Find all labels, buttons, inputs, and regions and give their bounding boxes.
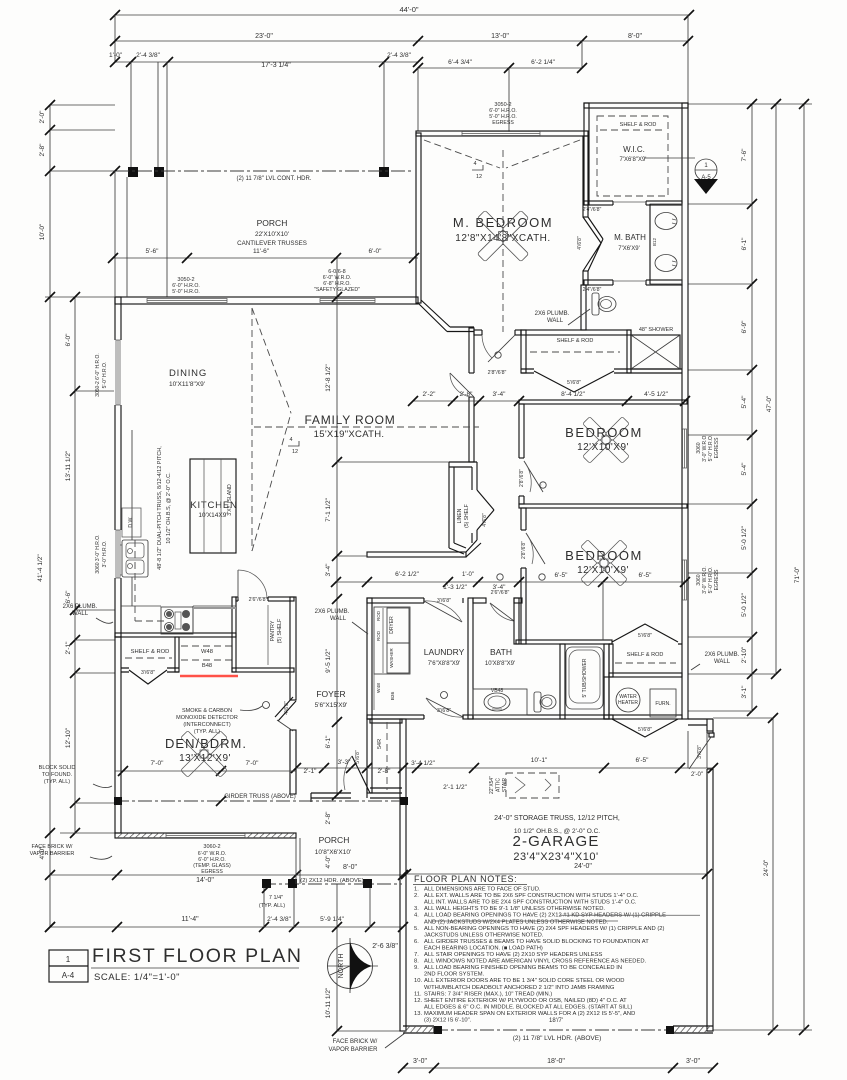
svg-text:PORCH: PORCH <box>257 218 288 228</box>
mbr ceiling dashes <box>424 140 500 168</box>
bedroom1 top wall y400 <box>519 400 687 404</box>
svg-text:24'-0": 24'-0" <box>574 863 592 870</box>
dim line3 right: mbr windows <box>418 67 582 69</box>
svg-text:3'/6'8": 3'/6'8" <box>437 708 451 714</box>
svg-text:2'4"/6'8": 2'4"/6'8" <box>583 287 602 293</box>
svg-text:3'X7' ISLAND: 3'X7' ISLAND <box>227 484 233 516</box>
svg-text:44'-0": 44'-0" <box>399 5 418 14</box>
svg-text:7'-6": 7'-6" <box>741 148 748 162</box>
svg-text:2'-0": 2'-0" <box>691 772 703 778</box>
svg-text:6'-6": 6'-6" <box>65 590 72 604</box>
svg-text:2'-1": 2'-1" <box>65 641 72 655</box>
svg-text:2X6 PLUMB.: 2X6 PLUMB. <box>535 311 570 317</box>
svg-text:STAIR: STAIR <box>502 777 508 792</box>
front wall dining-family <box>115 297 418 304</box>
svg-text:2'-8": 2'-8" <box>39 143 46 157</box>
porch header dashdot y884 <box>262 883 402 885</box>
hall dim y401 <box>413 400 519 402</box>
svg-text:(TYP. ALL): (TYP. ALL) <box>194 729 220 735</box>
svg-text:FLOOR PLAN NOTES:: FLOOR PLAN NOTES: <box>414 874 517 884</box>
svg-text:2'-4 3/8": 2'-4 3/8" <box>136 52 160 59</box>
svg-text:LINEN: LINEN <box>457 508 463 523</box>
svg-text:4: 4 <box>289 437 292 443</box>
kitchen closet bottom walls + chevron door 3/6-8 <box>121 668 179 672</box>
den label + fan <box>181 731 228 778</box>
svg-text:3'/6'8": 3'/6'8" <box>437 598 451 604</box>
wic bottom wall <box>584 201 682 205</box>
svg-text:3'/6'8": 3'/6'8" <box>697 745 703 759</box>
svg-text:3'-4 1/2": 3'-4 1/2" <box>411 760 435 767</box>
svg-text:13.: 13. <box>414 1011 422 1017</box>
svg-text:2'6"/6'8": 2'6"/6'8" <box>249 597 268 603</box>
svg-text:JACKSTUDS UNLESS OTHERWISE NOT: JACKSTUDS UNLESS OTHERWISE NOTED. <box>424 932 544 938</box>
svg-text:MAXIMUM HEADER SPAN ON EXTERIO: MAXIMUM HEADER SPAN ON EXTERIOR WALLS FO… <box>424 1011 635 1017</box>
svg-text:ALL GIRDER TRUSSES & BEAMS TO: ALL GIRDER TRUSSES & BEAMS TO HAVE SOLID… <box>424 939 649 945</box>
svg-text:10'-0": 10'-0" <box>39 223 46 240</box>
svg-text:5'-4": 5'-4" <box>741 462 748 476</box>
garage side door 3/6-8 <box>689 733 714 769</box>
svg-text:23'-0": 23'-0" <box>255 33 273 40</box>
svg-text:(3) 2X12 IS 6'-10".: (3) 2X12 IS 6'-10". <box>424 1018 472 1024</box>
svg-text:WASHER: WASHER <box>389 647 394 667</box>
vertical ext x582 <box>581 41 583 68</box>
svg-text:(TYP. ALL): (TYP. ALL) <box>259 903 285 909</box>
svg-text:ATTIC: ATTIC <box>496 778 502 792</box>
svg-text:1: 1 <box>66 955 71 964</box>
svg-text:3.: 3. <box>414 906 419 912</box>
svg-text:3'-0" H.R.O.: 3'-0" H.R.O. <box>102 541 108 568</box>
svg-text:2'-6 3/8": 2'-6 3/8" <box>372 943 398 950</box>
svg-text:3'-0": 3'-0" <box>413 1058 427 1065</box>
svg-text:ALL EDGES & 6" O.C. IN MIDDLE.: ALL EDGES & 6" O.C. IN MIDDLE. BLOCKED A… <box>424 1004 632 1010</box>
svg-text:ALL WINDOWS NOTED ARE AMERICAN: ALL WINDOWS NOTED ARE AMERICAN VINYL CRO… <box>424 959 647 965</box>
tub 5ft <box>566 647 603 709</box>
garage chevron door 5/6-8 down <box>612 719 678 737</box>
svg-text:10'-1": 10'-1" <box>531 757 548 764</box>
svg-text:5'-0" H.R.O.: 5'-0" H.R.O. <box>172 289 200 295</box>
window front 3050-2 <box>147 298 227 303</box>
svg-text:VB48: VB48 <box>491 688 503 694</box>
svg-text:SMOKE & CARBON: SMOKE & CARBON <box>182 708 232 714</box>
svg-text:2'-8": 2'-8" <box>325 811 332 825</box>
svg-text:3'-4": 3'-4" <box>493 391 507 398</box>
svg-text:ROD: ROD <box>376 630 381 641</box>
svg-text:2'8"/6'8": 2'8"/6'8" <box>521 541 527 559</box>
svg-text:2'-8": 2'-8" <box>460 391 474 398</box>
mbr right wall upper <box>583 136 588 217</box>
hall dim y582 <box>336 581 685 583</box>
svg-text:11'-4": 11'-4" <box>181 916 199 923</box>
svg-text:4'-0": 4'-0" <box>325 855 332 869</box>
svg-text:(TYP. ALL): (TYP. ALL) <box>44 779 70 785</box>
bedroom1 fan+label <box>583 417 630 464</box>
mbr left wall <box>416 133 421 303</box>
svg-text:10'8"X6'X10': 10'8"X6'X10' <box>315 849 351 856</box>
svg-text:4'/6'8": 4'/6'8" <box>482 513 488 527</box>
ext line x418 down to mbr <box>417 68 419 131</box>
svg-text:SHELF & ROD: SHELF & ROD <box>131 649 170 655</box>
linen closet <box>449 462 481 557</box>
svg-text:24'-0" STORAGE TRUSS, 12/12 PI: 24'-0" STORAGE TRUSS, 12/12 PITCH, <box>494 815 620 822</box>
svg-text:ALL LOAD BEARING OPENINGS TO H: ALL LOAD BEARING OPENINGS TO HAVE (2) 2X… <box>424 913 666 919</box>
strikethrough note 4 <box>432 920 618 922</box>
svg-text:6'-1": 6'-1" <box>325 735 332 749</box>
right dim line2 x776 <box>775 104 777 674</box>
left exterior wall den <box>115 637 121 833</box>
svg-text:3'-0": 3'-0" <box>686 1058 700 1065</box>
laundry right wall <box>468 598 473 719</box>
svg-text:5'/6'8": 5'/6'8" <box>355 750 361 764</box>
family room bottom wall <box>367 552 466 557</box>
attic stair dashed <box>506 773 559 798</box>
svg-text:SHEET ENTIRE EXTERIOR W/ PLYWO: SHEET ENTIRE EXTERIOR W/ PLYWOOD OR OSB,… <box>424 998 627 1004</box>
hall left wall upper <box>469 328 474 462</box>
svg-text:B12: B12 <box>652 238 657 247</box>
red missing wall line <box>180 675 238 677</box>
svg-text:EGRESS: EGRESS <box>492 120 514 126</box>
porch edge lines <box>295 838 297 884</box>
wic door 2-4 <box>613 200 646 206</box>
svg-text:5'-6": 5'-6" <box>146 248 160 255</box>
svg-text:DINING: DINING <box>169 368 207 379</box>
svg-text:12'-8 1/2": 12'-8 1/2" <box>325 364 332 392</box>
svg-text:2'8"/6'8": 2'8"/6'8" <box>488 370 507 376</box>
svg-text:EACH BEARING LOCATION. (■ LOAD: EACH BEARING LOCATION. (■ LOAD PATH) <box>424 945 543 951</box>
bedrooms divider wall y504 <box>519 504 687 508</box>
svg-text:7'X6'X9': 7'X6'X9' <box>618 246 639 252</box>
svg-text:5'-4": 5'-4" <box>741 395 748 409</box>
svg-text:8'-4 1/2": 8'-4 1/2" <box>561 391 585 398</box>
garage bottom wall hatched <box>403 1026 713 1033</box>
svg-text:12'-10": 12'-10" <box>65 727 72 748</box>
brick hatch den bottom <box>117 834 294 839</box>
svg-text:18'/7': 18'/7' <box>549 1018 563 1024</box>
svg-text:PORCH: PORCH <box>319 835 350 845</box>
svg-text:4: 4 <box>473 161 476 167</box>
svg-text:4'/6'8": 4'/6'8" <box>577 236 583 250</box>
svg-text:3050-2 6'-0" H.R.O.: 3050-2 6'-0" H.R.O. <box>95 353 101 397</box>
svg-text:2'-2": 2'-2" <box>423 391 437 398</box>
kitchen sink <box>122 540 148 577</box>
svg-text:5'/6'8": 5'/6'8" <box>567 380 581 386</box>
mbath toilet room left wall <box>581 285 586 330</box>
svg-text:SCALE: 1/4"=1'-0": SCALE: 1/4"=1'-0" <box>94 972 180 983</box>
hall door opening 2-8 top <box>450 373 475 397</box>
svg-text:3'-3": 3'-3" <box>338 759 352 766</box>
svg-text:BLOCK SOLID: BLOCK SOLID <box>39 765 76 771</box>
svg-text:41'-4 1/2": 41'-4 1/2" <box>37 554 44 582</box>
mbr closet bifold chevron <box>534 371 614 392</box>
svg-text:ALL EXT. WALLS ARE TO BE 2X6 S: ALL EXT. WALLS ARE TO BE 2X6 SPF CONSTRU… <box>424 893 639 899</box>
svg-text:FIRST FLOOR PLAN: FIRST FLOOR PLAN <box>92 945 303 967</box>
svg-text:(2) 11 7/8" LVL HDR. (ABOVE): (2) 11 7/8" LVL HDR. (ABOVE) <box>513 1035 602 1042</box>
svg-text:5'/6'8": 5'/6'8" <box>638 727 652 733</box>
svg-text:10'X8'8"X9': 10'X8'8"X9' <box>485 661 515 667</box>
svg-text:4'-5 1/2": 4'-5 1/2" <box>644 391 668 398</box>
porch slab edge <box>126 177 128 297</box>
svg-text:13'-11 1/2": 13'-11 1/2" <box>65 450 72 481</box>
laundry top door 3/6-8 <box>424 597 464 622</box>
closet bottom y673 <box>609 673 682 677</box>
svg-text:15'X19"XCATH.: 15'X19"XCATH. <box>314 429 385 440</box>
bottom porch dim line y875 <box>50 874 403 876</box>
svg-text:7.: 7. <box>414 952 419 958</box>
svg-text:D.W.: D.W. <box>128 516 134 527</box>
svg-text:48" SHOWER: 48" SHOWER <box>639 327 673 333</box>
svg-text:(2) 2X12 HDR. (ABOVE): (2) 2X12 HDR. (ABOVE) <box>300 878 364 884</box>
svg-text:13'X12'X9': 13'X12'X9' <box>179 753 231 764</box>
svg-text:12.: 12. <box>414 998 422 1004</box>
svg-text:2.: 2. <box>414 893 419 899</box>
garage right bump walls <box>688 719 713 731</box>
svg-text:1'-3 1/2": 1'-3 1/2" <box>443 584 467 591</box>
ext lines down to porch posts <box>130 62 132 168</box>
mbath bottom wall <box>584 280 682 285</box>
svg-text:1'-0": 1'-0" <box>109 52 123 59</box>
bath top walls <box>473 598 486 603</box>
detail marker A-5 <box>645 157 695 159</box>
mbr right wall lower stub <box>583 271 588 285</box>
garage bottom dim line y1068 <box>403 1067 713 1069</box>
window mbr 3050-2 <box>462 132 540 136</box>
svg-text:7'X6'8"X9': 7'X6'8"X9' <box>620 157 647 163</box>
svg-text:17'-3 1/4": 17'-3 1/4" <box>261 62 291 69</box>
svg-text:CANTILEVER TRUSSES: CANTILEVER TRUSSES <box>237 240 307 247</box>
svg-text:ALL INT. WALLS ARE TO BE 2X4 S: ALL INT. WALLS ARE TO BE 2X4 SPF CONSTRU… <box>424 900 637 906</box>
closet divider wall x175 <box>175 637 179 672</box>
window left wall kitchen 3060 <box>114 530 122 578</box>
bottom dim line y927 <box>50 926 403 928</box>
kitchen counters <box>131 430 133 540</box>
svg-text:8'-0": 8'-0" <box>343 864 357 871</box>
dim line 44ft top <box>115 14 689 16</box>
bath-hall vertical wall x514 <box>514 598 519 644</box>
svg-text:22'X10'X10': 22'X10'X10' <box>255 231 289 238</box>
vertical ext x689 wic corner <box>687 15 689 103</box>
svg-text:6'-9": 6'-9" <box>741 320 748 334</box>
svg-text:5.: 5. <box>414 926 419 932</box>
bedroom2 left wall <box>521 508 526 644</box>
garage right side dim y768 <box>406 767 713 769</box>
svg-text:BATH: BATH <box>490 647 512 657</box>
svg-text:BEDROOM: BEDROOM <box>565 425 643 440</box>
svg-text:2'-4 3/8": 2'-4 3/8" <box>267 916 291 923</box>
svg-text:10'-11 1/2": 10'-11 1/2" <box>325 987 332 1018</box>
svg-text:ALL LOAD BEARING FINISHED OPEN: ALL LOAD BEARING FINISHED OPENING BEAMS … <box>424 965 622 971</box>
svg-text:5'/6'8": 5'/6'8" <box>638 633 652 639</box>
svg-text:2'8"/6'8": 2'8"/6'8" <box>519 469 525 487</box>
stair dashed center <box>386 722 388 790</box>
family ceiling dashes <box>251 308 253 551</box>
right dim line3 x804 71ft <box>803 104 805 1030</box>
svg-text:4.: 4. <box>414 913 419 919</box>
right dim line2b 24ft garage <box>772 718 774 1030</box>
laundry walls <box>367 598 372 719</box>
mbr closet shelf-rod <box>521 330 631 335</box>
svg-text:WALL: WALL <box>547 318 564 324</box>
svg-text:MONOXIDE DETECTOR: MONOXIDE DETECTOR <box>176 715 238 721</box>
foyer rear door 5/6-8 <box>352 756 370 793</box>
bedroom2 fan+label <box>581 540 628 587</box>
hall top door opening <box>482 329 515 362</box>
left ext lines for inner dims <box>75 390 115 392</box>
svg-text:6'-4 3/4": 6'-4 3/4" <box>448 59 472 66</box>
svg-text:12'X10'X9': 12'X10'X9' <box>577 442 629 453</box>
svg-text:PANTRY: PANTRY <box>270 620 276 641</box>
svg-text:AND (2) JACKSTUDS W/2X4 PLATES: AND (2) JACKSTUDS W/2X4 PLATES UNLESS OT… <box>424 919 609 925</box>
right dim ext from wic corner <box>688 103 812 105</box>
slope marker 4-12 family <box>288 441 299 446</box>
svg-text:5' TUB/SHOWER: 5' TUB/SHOWER <box>582 658 588 697</box>
garage left wall <box>400 719 406 1031</box>
right dim line1 x752 <box>751 104 753 711</box>
svg-text:SHELF & ROD: SHELF & ROD <box>620 122 657 128</box>
svg-text:2'4"/6'8": 2'4"/6'8" <box>583 207 602 213</box>
garage door header dashdot <box>434 1029 673 1031</box>
bath toilet <box>534 692 541 712</box>
wic left wall <box>584 103 589 205</box>
title box <box>49 950 88 982</box>
svg-text:WALL: WALL <box>714 659 731 665</box>
svg-text:2ND FLOOR SYSTEM.: 2ND FLOOR SYSTEM. <box>424 972 485 978</box>
svg-text:FURN.: FURN. <box>655 701 670 707</box>
window bedroom1 right 3060 <box>683 429 688 468</box>
svg-text:7'6"X8'8"X9': 7'6"X8'8"X9' <box>428 661 460 667</box>
svg-text:B36: B36 <box>390 691 396 700</box>
bedroom2 bottom wall <box>516 640 612 644</box>
bath bottom wall y715 <box>473 715 613 719</box>
svg-text:A-4: A-4 <box>62 971 75 980</box>
svg-text:SHELF & ROD: SHELF & ROD <box>627 652 664 658</box>
dim line 23ft 13ft 8ft <box>115 40 688 42</box>
vertical ext from top line at x115 <box>114 15 116 62</box>
svg-text:1.: 1. <box>414 887 419 893</box>
interior vertical dim line x337 <box>336 258 338 795</box>
svg-text:10.: 10. <box>414 978 422 984</box>
bedroom2 door opening <box>520 530 545 568</box>
svg-text:ALL STAIR OPENINGS TO HAVE (2): ALL STAIR OPENINGS TO HAVE (2) 2X10 SYP … <box>424 952 603 958</box>
svg-text:B48: B48 <box>202 663 212 669</box>
laundry bottom door 3/6-8 <box>424 698 464 720</box>
svg-text:6'-0": 6'-0" <box>369 248 383 255</box>
mbr top wall <box>416 131 588 136</box>
wic top wall <box>584 103 688 108</box>
svg-text:FACE BRICK W/: FACE BRICK W/ <box>333 1039 378 1045</box>
svg-text:ALL NON-BEARING OPENINGS TO HA: ALL NON-BEARING OPENINGS TO HAVE (2) 2X4… <box>424 926 664 932</box>
right exterior wall <box>682 103 688 719</box>
svg-text:5'6"X15'X9': 5'6"X15'X9' <box>315 702 348 709</box>
furnace <box>650 689 676 717</box>
kitchen bottom wall <box>115 633 236 637</box>
svg-text:WALL: WALL <box>72 611 89 617</box>
porch header dashdot front <box>115 170 413 172</box>
svg-text:4'/6'8": 4'/6'8" <box>284 701 290 715</box>
svg-text:SHELF & ROD: SHELF & ROD <box>557 338 594 344</box>
svg-text:ROD: ROD <box>376 610 381 621</box>
bath vanity <box>473 689 527 715</box>
ext lines porch bottom <box>263 884 265 927</box>
svg-text:5'-0" H.R.O.: 5'-0" H.R.O. <box>102 362 108 389</box>
svg-text:NORTH: NORTH <box>338 954 345 979</box>
hall-mbr wall band y330 <box>474 330 521 335</box>
svg-text:3060 3'-0" H.R.O.: 3060 3'-0" H.R.O. <box>95 534 101 573</box>
svg-text:(2) 11 7/8" LVL CONT. HDR.: (2) 11 7/8" LVL CONT. HDR. <box>236 176 311 182</box>
svg-text:12: 12 <box>476 174 482 180</box>
svg-text:5'-0 1/2": 5'-0 1/2" <box>741 525 748 549</box>
svg-text:LAUNDRY: LAUNDRY <box>424 647 465 657</box>
door arc hall-family <box>450 373 474 397</box>
counter right of stove gray <box>193 607 236 609</box>
bedroom1 left wall <box>519 404 524 504</box>
svg-text:2X6 PLUMB.: 2X6 PLUMB. <box>315 609 350 615</box>
mbr fan <box>477 210 528 261</box>
svg-text:11.: 11. <box>414 991 422 997</box>
stair walls <box>367 719 372 793</box>
svg-text:14'-0": 14'-0" <box>196 877 214 884</box>
garage corner diag ticks <box>688 731 707 768</box>
bedroom1 door opening left wall <box>518 458 543 496</box>
svg-text:6'-5": 6'-5" <box>555 572 569 579</box>
den right wall lower <box>290 730 296 794</box>
left outer dim line x50 <box>49 105 51 927</box>
girder truss dashdot <box>115 800 402 802</box>
mbath toilet <box>592 293 599 315</box>
svg-text:6'-0": 6'-0" <box>65 333 72 347</box>
svg-text:ALL DIMENSIONS ARE TO FACE OF: ALL DIMENSIONS ARE TO FACE OF STUD. <box>424 887 541 893</box>
svg-text:8'-0": 8'-0" <box>628 33 642 40</box>
svg-text:EGRESS: EGRESS <box>714 569 720 591</box>
svg-text:3'-4": 3'-4" <box>493 584 507 591</box>
svg-text:EGRESS: EGRESS <box>201 869 223 875</box>
svg-text:6'-1": 6'-1" <box>741 237 748 251</box>
svg-text:10'X11'8"X9': 10'X11'8"X9' <box>169 381 205 388</box>
svg-text:12: 12 <box>292 449 298 455</box>
svg-text:13'-0": 13'-0" <box>491 33 509 40</box>
svg-text:W.I.C.: W.I.C. <box>623 145 645 154</box>
svg-text:6'-5": 6'-5" <box>636 757 650 764</box>
dw <box>122 508 141 537</box>
svg-text:VAPOR BARRIER: VAPOR BARRIER <box>329 1047 379 1053</box>
left dim horizontal exts <box>50 104 115 106</box>
bedroom2 closet walls <box>609 643 682 645</box>
svg-text:6'-2 1/4": 6'-2 1/4" <box>531 59 555 66</box>
svg-text:2'-4 3/8": 2'-4 3/8" <box>387 52 411 59</box>
stove <box>161 607 193 634</box>
svg-text:48'-8 1/2" DUAL-PITCH TRUSS, 8: 48'-8 1/2" DUAL-PITCH TRUSS, 8/12-4/12 P… <box>157 446 163 570</box>
ext line x509 ridge <box>508 68 510 135</box>
mbath angled door 4/6-8 <box>583 217 603 271</box>
porch posts front <box>128 167 138 177</box>
left inner dim line x75 <box>74 297 76 833</box>
den door 4/6-8 angled <box>275 697 296 721</box>
dim line3 left: porch offsets <box>115 61 418 63</box>
svg-text:22"X54": 22"X54" <box>489 776 495 794</box>
water heater closet <box>604 677 609 719</box>
svg-text:10'X14X9': 10'X14X9' <box>198 512 227 519</box>
pantry door 2-6 top arc <box>238 570 268 602</box>
svg-text:DRYER: DRYER <box>389 616 395 634</box>
svg-text:47'-0": 47'-0" <box>766 395 773 412</box>
garage right wall <box>707 731 713 1031</box>
garage interior dim 24ft <box>406 873 707 875</box>
svg-text:STAIRS: 7 3/4" RISER (MAX.), 1: STAIRS: 7 3/4" RISER (MAX.), 10" TREAD (… <box>424 991 552 997</box>
svg-text:54R: 54R <box>377 739 383 749</box>
svg-text:2X6 PLUMB.: 2X6 PLUMB. <box>63 604 98 610</box>
linen door 4/6-8 <box>477 490 494 510</box>
svg-text:11'-6": 11'-6" <box>253 248 270 255</box>
pantry walls <box>232 597 236 672</box>
left exterior wall upper <box>115 297 121 637</box>
